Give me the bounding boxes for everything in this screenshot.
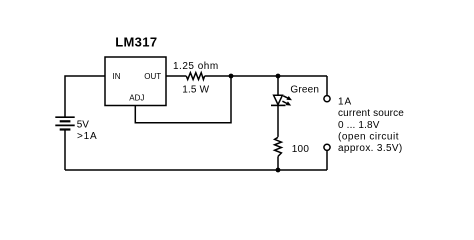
op-amp regulator U1 LM317 box <box>105 57 166 106</box>
LED D1 triangle <box>274 95 283 104</box>
junction ADJ node <box>229 74 234 79</box>
wire OUT to resistor R1 <box>166 75 186 77</box>
LED arrow 2 <box>282 101 291 105</box>
svg-text:Green: Green <box>290 84 319 95</box>
wire ADJ feedback <box>135 76 231 123</box>
junction LED branch node <box>276 74 281 79</box>
svg-text:OUT: OUT <box>144 72 161 81</box>
wire R2 to bottom rail <box>277 156 279 170</box>
junction bottom node <box>276 168 281 173</box>
wire R1 to output terminal <box>205 75 327 77</box>
wire LED to R2 <box>277 105 279 136</box>
svg-text:1A: 1A <box>338 97 352 108</box>
wire battery bottom <box>64 130 66 171</box>
terminal + open circle <box>324 96 330 102</box>
svg-text:IN: IN <box>113 72 121 81</box>
svg-text:1.25 ohm: 1.25 ohm <box>173 61 219 72</box>
svg-text:current source: current source <box>338 108 404 119</box>
wire battery top to IN <box>65 76 105 117</box>
wire to terminal + <box>326 76 328 95</box>
svg-text:LM317: LM317 <box>115 34 157 49</box>
svg-text:approx. 3.5V): approx. 3.5V) <box>338 143 403 154</box>
LED D1 cathode bar <box>271 104 286 106</box>
resistor R1 1.25 ohm <box>186 73 204 80</box>
wire terminal - to bottom rail <box>326 151 328 170</box>
svg-text:0 ... 1.8V: 0 ... 1.8V <box>338 120 380 131</box>
svg-text:100: 100 <box>292 144 310 155</box>
wire bottom rail <box>65 169 327 171</box>
wire node to LED <box>277 76 279 95</box>
label output annotation <box>338 97 404 155</box>
svg-text:ADJ: ADJ <box>129 94 144 103</box>
resistor R2 100 <box>275 137 282 156</box>
LED arrow 1 <box>283 96 292 100</box>
svg-text:1.5 W: 1.5 W <box>182 85 209 96</box>
terminal - open circle <box>324 144 330 150</box>
svg-text:>1A: >1A <box>77 131 97 142</box>
battery B1 <box>55 117 74 129</box>
svg-text:(open circuit: (open circuit <box>338 131 399 142</box>
svg-text:5V: 5V <box>77 120 90 131</box>
